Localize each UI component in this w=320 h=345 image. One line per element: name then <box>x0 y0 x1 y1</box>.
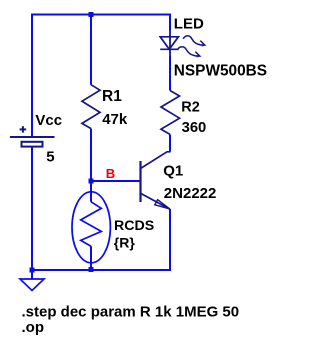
svg-text:B: B <box>106 166 115 181</box>
wire bottom horizontal <box>31 269 171 271</box>
svg-text:360: 360 <box>182 120 207 136</box>
LED light arrow 2 <box>177 47 199 57</box>
transistor Q1 <box>141 152 171 210</box>
svg-text:.step dec param R 1k 1MEG 50: .step dec param R 1k 1MEG 50 <box>22 304 240 321</box>
svg-text:NSPW500BS: NSPW500BS <box>174 62 267 79</box>
wire RCDS bottom <box>90 246 92 270</box>
wire R1 bottom to node B <box>90 129 92 181</box>
wire LED anode <box>169 14 171 31</box>
svg-text:R2: R2 <box>181 99 200 115</box>
svg-text:2N2222: 2N2222 <box>164 185 217 202</box>
node B junction <box>89 179 94 184</box>
wire left vertical to battery <box>31 14 33 138</box>
resistor R1 <box>82 85 100 129</box>
wire R2 bottom to collector <box>169 134 171 151</box>
wire top horizontal <box>32 14 171 16</box>
photoresistor RCDS <box>72 192 110 263</box>
svg-text:R1: R1 <box>102 88 122 105</box>
svg-text:47k: 47k <box>102 111 128 128</box>
wire base of Q1 <box>91 180 141 182</box>
LED D1 <box>160 37 178 50</box>
svg-text:{R}: {R} <box>114 235 136 251</box>
svg-text:LED: LED <box>174 15 204 32</box>
wire LED cathode to R2 <box>169 56 171 91</box>
svg-text:RCDS: RCDS <box>114 218 154 234</box>
resistor R2 <box>161 91 180 135</box>
svg-text:5: 5 <box>46 149 54 166</box>
wire battery bottom to ground node <box>31 147 33 271</box>
wire ground stub <box>31 270 33 279</box>
wire node B to RCDS <box>90 181 92 202</box>
node junction RCDS bottom <box>89 267 94 272</box>
node junction top <box>89 12 94 17</box>
node junction ground <box>30 268 35 273</box>
ground <box>20 279 44 291</box>
battery Vcc <box>10 126 55 146</box>
wire R1 branch top <box>90 14 92 85</box>
wire emitter to bottom <box>169 209 171 271</box>
LED pin through symbol <box>169 30 171 56</box>
svg-text:Vcc: Vcc <box>35 112 62 129</box>
svg-text:.op: .op <box>22 319 45 336</box>
svg-text:Q1: Q1 <box>163 163 183 180</box>
LED light arrow 1 <box>183 36 205 46</box>
